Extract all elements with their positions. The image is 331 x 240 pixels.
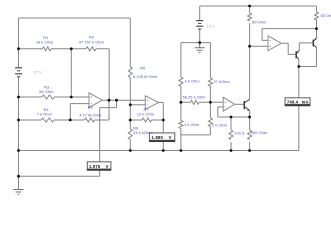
wire middle box top [181,42,211,44]
resistor R6 [128,129,132,140]
svg-text:7 k Ohm: 7 k Ohm [37,112,53,117]
node 1k ground [180,149,183,152]
transistor Q2 [296,50,299,59]
svg-text:V: V [169,135,172,140]
svg-text:R9: R9 [88,105,94,110]
wire jog to voltmeter probe [19,100,117,176]
svg-text:33.4 kOhm: 33.4 kOhm [133,130,153,135]
ground middle [195,43,205,53]
resistor 2k [208,118,212,126]
node 15k 56k 1k [180,101,183,104]
svg-text:2 k Ohm: 2 k Ohm [212,122,228,127]
node 241ohm ground [230,149,233,152]
svg-text:12 k Ohm: 12 k Ohm [137,111,155,116]
op-amp U2 [145,96,158,109]
wire R4 row [19,119,110,121]
node left rail probe wire [17,175,20,178]
resistor 241 ohm chain [230,117,232,151]
wire opamp2 lower input stub [130,104,145,106]
resistor R7 12k [142,118,152,122]
wire probe3 stem [298,67,300,151]
wire 56k row [181,101,223,103]
resistor 27k [208,78,212,86]
resistor R4 [41,118,54,122]
wire R5 chain [129,18,131,151]
wire R3 row [19,96,90,98]
node opamp4 noninverting input [248,45,251,48]
node Q1 emitter right [248,116,251,119]
wire opamp4 feedback [262,29,316,41]
wire R2 drop to opamp1 output [108,49,110,100]
node 50ohm right feedback [315,27,318,30]
wire opamp1 output row [102,99,145,101]
wire 50ohm left chain [249,6,251,46]
svg-text:241.5: 241.5 [234,131,245,136]
battery V1 [15,68,22,77]
node opamp1 inverting input [69,119,72,122]
wire Q1 collector rise [249,46,251,99]
svg-text:1.975: 1.975 [89,164,101,169]
wire divider drop [70,49,72,97]
resistor R1 [42,47,51,51]
node probe1 ground [162,149,165,152]
svg-text:50 Ohm: 50 Ohm [252,19,267,24]
op-amp U4 [268,36,281,51]
wire opamp2 output [159,103,164,151]
node opamp2 output 12k right [162,119,165,122]
wire left rail upper [18,18,20,67]
resistor 500 ohm chain [249,117,251,151]
op-amp U1 [89,93,102,108]
ground bottom-left [14,190,24,195]
wire opamp4 plus input [250,45,268,47]
node Q1 emitter feedback left [230,116,233,119]
resistor R9 feedback [85,118,95,122]
resistor 1k [179,121,183,129]
svg-text:47.757 k Ohm: 47.757 k Ohm [79,40,105,45]
wire Q2 emitter drop [298,60,300,67]
svg-text:V: V [106,164,109,169]
node divider to R3 row [70,96,73,99]
node left rail ground rail [17,149,20,152]
svg-text:1 k Ohm: 1 k Ohm [184,122,200,127]
transistor Q3 [313,38,317,48]
node 56k opamp3 input 2k [209,101,212,104]
wire 15k chain [180,43,182,151]
resistor 56k [191,100,200,104]
wire 27k chain [209,43,211,103]
svg-text:1.885: 1.885 [152,135,164,140]
wire Q1 emitter drop [249,110,251,117]
voltmeter probe 1 [149,133,175,141]
svg-text:4.77 M Ohm: 4.77 M Ohm [79,112,102,117]
svg-text:R5: R5 [140,66,146,71]
wire Q2 collector to Q3 base [299,43,313,50]
svg-text:mA: mA [302,100,309,105]
svg-text:19 k Ohm: 19 k Ohm [36,39,54,44]
wire feedback rise [108,100,110,120]
wire ground rail bottom [19,150,299,152]
node R5 opamp2 input [129,103,132,106]
wire battery V2 stems [199,6,201,43]
resistor R5 [128,67,132,78]
svg-text:56.25 k Ohm: 56.25 k Ohm [183,94,207,99]
voltmeter probe 2 [87,162,111,170]
wire emitter node bottom [299,48,317,67]
wire R1-R2 row [19,48,110,50]
node opamp1 output R2 feedback [108,99,111,102]
svg-text:27 kOhm: 27 kOhm [214,79,231,84]
wire top-left loop [19,17,131,19]
node battery V2 minus [198,41,201,44]
resistor 50 ohm left [248,13,252,21]
battery V2 [196,21,203,29]
wire opamp3 output [235,103,244,105]
svg-text:746.4: 746.4 [287,100,299,105]
svg-text:4 k Ohm: 4 k Ohm [185,78,201,83]
node opamp1 output probe tap [115,99,118,102]
svg-text:27 V: 27 V [34,70,43,75]
wire 50ohm right chain [316,6,318,38]
wire top rail middle-right [200,5,317,7]
svg-text:500 Ohm: 500 Ohm [251,130,268,135]
node 500ohm ground [248,149,251,152]
svg-text:56 Ohm: 56 Ohm [39,89,54,94]
svg-text:50 Ohm: 50 Ohm [321,13,331,18]
resistor R3 [42,95,54,99]
wire opamp4 output to Q2 base [281,43,296,54]
wire left rail lower [18,77,20,189]
wire 2k chain [181,102,211,135]
wire opamp3 feedback loop [218,107,250,117]
node Q2 emitter probe3 [297,65,300,68]
node left rail R3 row [17,96,20,99]
resistor R2 [86,47,96,51]
svg-text:12 V: 12 V [207,23,216,28]
node left rail R1 row [17,47,20,50]
svg-text:6.125 M Ohm: 6.125 M Ohm [133,74,158,79]
wire 12k feedback row [130,119,163,121]
op-amp U3 [223,97,234,111]
node divider junction [70,47,73,50]
node R6 top 12k left [129,119,132,122]
transistor Q1 [244,99,249,111]
resistor 15k [179,77,183,86]
ammeter probe 3 [285,98,311,106]
node R6 ground [129,149,132,152]
wire opamp1 lower input [70,104,89,120]
resistor 50 ohm right [315,12,319,20]
node top rail 50ohm left [248,5,251,8]
node left rail R4 row [17,119,20,122]
